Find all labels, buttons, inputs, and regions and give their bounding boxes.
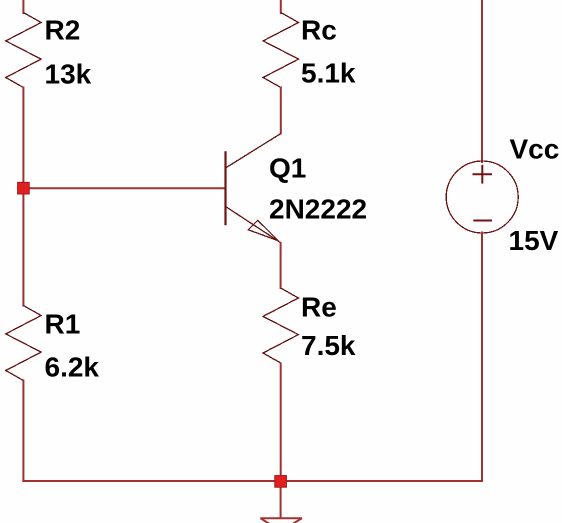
- wire: Rc to collector: [280, 87, 282, 135]
- svg-text:Rc: Rc: [301, 15, 337, 46]
- ground: [260, 518, 302, 523]
- resistor R1: [6, 306, 41, 381]
- svg-text:5.1k: 5.1k: [301, 58, 356, 89]
- wire: left rail R2 to R1: [22, 87, 24, 307]
- node: emitter/ground junction: [275, 476, 287, 488]
- svg-text:Q1: Q1: [269, 152, 306, 183]
- transistor Q1: [226, 134, 281, 243]
- svg-text:15V: 15V: [509, 225, 559, 256]
- svg-text:6.2k: 6.2k: [45, 352, 100, 383]
- svg-text:Re: Re: [301, 291, 337, 322]
- svg-text:13k: 13k: [45, 58, 92, 89]
- svg-text:R1: R1: [45, 309, 81, 340]
- svg-text:7.5k: 7.5k: [301, 330, 356, 361]
- wire: top lead to Rc: [280, 0, 282, 14]
- svg-text:R2: R2: [45, 14, 81, 45]
- wire: emitter to Re: [280, 242, 282, 289]
- wire: base wire: [23, 187, 225, 189]
- wire: junction to ground: [280, 481, 282, 518]
- svg-text:2N2222: 2N2222: [269, 194, 367, 225]
- wire: top lead to Vcc source: [481, 0, 483, 163]
- voltage source V1 (Vcc): [446, 161, 518, 233]
- svg-text:Vcc: Vcc: [510, 134, 560, 165]
- wire: top lead to R2: [22, 0, 24, 14]
- node: base junction: [18, 182, 30, 194]
- resistor Rc: [263, 13, 298, 88]
- resistor R2: [6, 13, 41, 88]
- wire: Re to bottom rail: [280, 363, 282, 483]
- wire: bottom rail: [22, 480, 483, 482]
- resistor Re: [263, 288, 298, 363]
- wire: left rail R1 to bottom rail: [22, 380, 24, 483]
- wire: Vcc source to bottom rail: [481, 232, 483, 483]
